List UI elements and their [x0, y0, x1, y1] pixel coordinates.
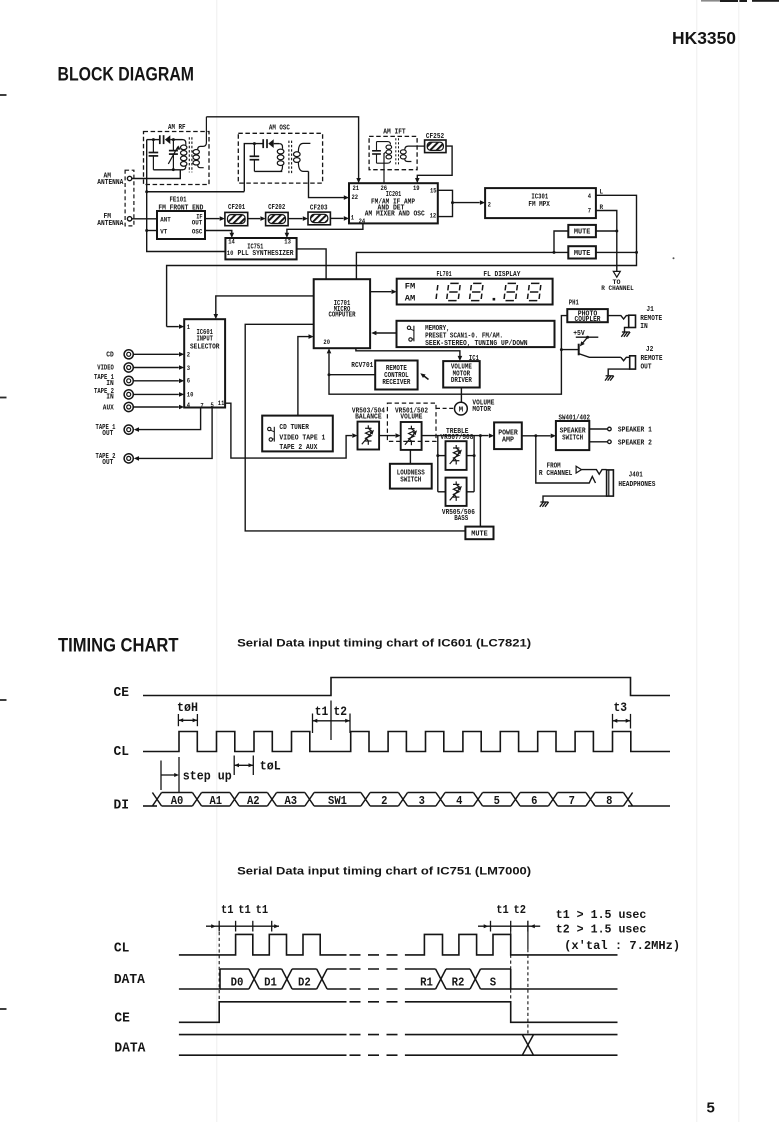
waveform DATA band chart2 right	[405, 968, 436, 970]
wire IC701 to bottom mute	[245, 324, 465, 531]
svg-text:11: 11	[218, 400, 225, 407]
svg-text:OUT: OUT	[102, 459, 113, 467]
svg-text:A3: A3	[284, 794, 297, 808]
jack TAPE 2 input	[124, 390, 133, 399]
svg-text:TIMING CHART: TIMING CHART	[58, 636, 179, 657]
svg-text:19: 19	[413, 185, 420, 192]
svg-text:AM OSC: AM OSC	[269, 125, 290, 133]
wire CF202 to CF203	[288, 218, 303, 220]
dashed link volume pot to motor	[436, 407, 454, 409]
svg-text:tøH: tøH	[177, 701, 198, 715]
transformer T3 secondary coil	[405, 146, 425, 150]
amplifier POWER AMP	[494, 422, 522, 449]
diode AM OSC	[268, 139, 273, 148]
jack VIDEO input	[124, 363, 133, 372]
svg-text:SWITCH: SWITCH	[400, 476, 421, 484]
transformer T1 primary coil	[183, 140, 186, 145]
ceramic filter CF252	[425, 140, 446, 153]
svg-text:R1: R1	[420, 976, 433, 990]
wire AUX to IC601	[133, 406, 178, 408]
wire IC201 pin24 to IC751 pin13	[287, 223, 363, 233]
IC IC601 input selector	[184, 319, 225, 407]
waveform DATA out chart2 lines	[179, 1034, 347, 1036]
svg-text:t1: t1	[221, 903, 234, 917]
svg-text:A2: A2	[247, 794, 260, 808]
svg-text:8: 8	[606, 794, 612, 808]
node to R channel open arrow	[613, 271, 620, 277]
wire AM IFT tap to IC201 pin 26	[384, 152, 386, 183]
svg-text:12: 12	[430, 213, 437, 220]
svg-text:CF202: CF202	[268, 204, 285, 212]
function box CD TUNER / VIDEO TAPE1 / TAPE2 AUX	[262, 416, 333, 452]
wire CD tuner select to IC701 pin20	[298, 337, 309, 416]
svg-text:MUTE: MUTE	[574, 229, 590, 237]
AM RF dashed enclosure	[144, 132, 210, 185]
svg-text:1: 1	[351, 215, 355, 222]
AM antenna terminal	[127, 176, 131, 180]
pot VR505/506 bass	[446, 478, 467, 506]
svg-text:HEADPHONES: HEADPHONES	[618, 481, 655, 489]
capacitor AM OSC coupling	[262, 139, 264, 148]
svg-text:AMP: AMP	[502, 436, 514, 444]
svg-text:t1: t1	[496, 903, 509, 917]
IC IC701 micro computer	[314, 279, 370, 348]
svg-text:REMOTE: REMOTE	[640, 315, 662, 323]
svg-text:D2: D2	[298, 976, 311, 990]
svg-text:D0: D0	[231, 976, 244, 990]
wire TAPE 2 to IC601	[133, 393, 178, 395]
ceramic filter CF201	[225, 212, 248, 225]
wire IC751 to IC701	[297, 249, 327, 279]
svg-text:SW1: SW1	[328, 794, 347, 808]
svg-text:MEMORY,: MEMORY,	[425, 325, 450, 333]
seven segment digits 188.88	[436, 285, 438, 299]
wire mute2 to IC701	[356, 252, 568, 279]
wire IC601 pin11 to balance pot	[225, 403, 352, 458]
svg-text:A0: A0	[171, 794, 184, 808]
svg-text:M: M	[459, 407, 464, 415]
svg-text:IN: IN	[106, 380, 113, 388]
svg-text:step up: step up	[183, 770, 232, 784]
ground for J1	[625, 328, 629, 332]
svg-text:AM IFT: AM IFT	[383, 128, 405, 136]
waveform CL chart2 right	[405, 934, 618, 955]
wire remote receiver to bus	[329, 374, 375, 376]
wire tone network rails	[437, 436, 439, 492]
svg-text:IC301: IC301	[531, 193, 548, 201]
wire to bottom mute	[479, 436, 481, 527]
svg-text:5: 5	[707, 1100, 715, 1117]
svg-text:OUT: OUT	[102, 430, 113, 438]
transformer T3 primary coil	[386, 145, 392, 149]
svg-text:J1: J1	[646, 306, 653, 314]
svg-text:24: 24	[359, 218, 366, 225]
IR beam arrow	[423, 375, 429, 379]
svg-text:AM RF: AM RF	[168, 124, 186, 132]
wire AM mixer feed	[147, 191, 245, 193]
scan speck	[673, 257, 675, 259]
svg-text:J401: J401	[629, 471, 643, 479]
wire FM antenna to FE101 ANT	[132, 218, 157, 220]
wire power amp to speaker switch	[522, 435, 551, 437]
svg-text:6: 6	[531, 794, 537, 808]
svg-text:MOTOR: MOTOR	[472, 406, 491, 414]
svg-text:AM: AM	[405, 295, 416, 304]
jack TAPE 1 OUT	[124, 425, 133, 434]
svg-text:IN: IN	[106, 394, 113, 402]
svg-text:Serial Data input timing chart: Serial Data input timing chart of IC751 …	[237, 866, 531, 878]
svg-text:A1: A1	[209, 794, 222, 808]
wire IC701 to IC601 top	[216, 296, 314, 314]
svg-text:t1: t1	[315, 705, 329, 719]
svg-text:ANT: ANT	[160, 216, 171, 223]
FM antenna terminal	[127, 217, 131, 221]
jack J2 remote out	[630, 356, 636, 369]
svg-text:CD TUNER: CD TUNER	[279, 424, 309, 432]
wire photo coupler output to J1	[608, 316, 629, 319]
wire AM RF to IC201 pin21 top bus	[206, 117, 358, 179]
transformer T3 core	[395, 138, 397, 166]
AM IFT dashed enclosure	[369, 136, 417, 169]
svg-text:TAPE 2 AUX: TAPE 2 AUX	[279, 444, 318, 452]
wire AM antenna to AM RF	[132, 170, 181, 179]
svg-text:FM MPX: FM MPX	[528, 201, 550, 209]
variable capacitor AM RF tuning	[172, 140, 174, 151]
svg-text:CD: CD	[106, 352, 113, 360]
svg-text:SWITCH: SWITCH	[562, 434, 583, 442]
wire AM IFT top	[377, 142, 391, 145]
wire IC601 pin7 to TAPE1 OUT	[139, 408, 201, 430]
wire IC701 to IC1 volume motor driver	[356, 348, 460, 356]
svg-text:3: 3	[419, 794, 425, 808]
transformer T2 secondary coil	[298, 143, 310, 151]
transformer T2 primary coil	[279, 144, 282, 149]
svg-text:COUPLER: COUPLER	[575, 316, 602, 324]
wire VT supply vertical	[147, 192, 226, 252]
IC IC301 FM MPX stereo decoder	[485, 188, 596, 218]
svg-text:OSC: OSC	[192, 229, 203, 236]
svg-text:4: 4	[187, 402, 191, 409]
wire AM OSC input riser	[244, 144, 262, 192]
svg-text:FM: FM	[405, 283, 416, 292]
wire AM RF top loop	[147, 139, 160, 141]
svg-text:7: 7	[569, 794, 575, 808]
jack TAPE 1 input	[124, 376, 133, 385]
jack TAPE 2 OUT	[124, 454, 133, 463]
waveform DATA band dashes	[350, 968, 405, 970]
svg-text:OUT: OUT	[192, 219, 203, 226]
node AM RF cap junction	[152, 138, 155, 141]
svg-text:VT: VT	[160, 229, 167, 236]
svg-text:t3: t3	[614, 701, 627, 715]
svg-text:22: 22	[352, 194, 359, 201]
svg-text:6: 6	[187, 378, 191, 385]
svg-text:CF203: CF203	[310, 205, 328, 213]
dimension t-phi-L	[233, 756, 235, 776]
svg-text:J2: J2	[646, 346, 653, 354]
svg-text:AUX: AUX	[103, 404, 115, 412]
svg-text:DI: DI	[114, 799, 130, 814]
wire AM OSC secondary output to IC201 pin22	[309, 171, 345, 197]
diode AM RF (varactor)	[165, 135, 170, 144]
svg-text:ANTENNA: ANTENNA	[97, 179, 124, 187]
svg-text:ANTENNA: ANTENNA	[97, 220, 124, 228]
wire CD to IC601	[133, 353, 178, 355]
wire IC601 pin5 to TAPE2 OUT	[139, 408, 212, 459]
wire L channel to headphone jack	[536, 436, 596, 483]
function box MEMORY / PRESET SCAN / SEEK-STEREO	[397, 321, 555, 347]
mute block 1 (R channel)	[568, 225, 596, 237]
wire memory functions into IC701	[376, 332, 397, 334]
transition X on DATA out	[522, 1035, 533, 1056]
waveform CL chart1	[143, 732, 670, 752]
guide dashed vertical data change	[527, 921, 529, 949]
svg-text:RCV701: RCV701	[351, 362, 373, 370]
ceramic filter CF202	[266, 212, 289, 225]
wire AM RF bottom loop	[153, 169, 183, 171]
svg-text:SPEAKER 1: SPEAKER 1	[618, 427, 652, 435]
wire IC201 pins 15/12 to IC301 pin2	[438, 190, 453, 216]
transformer T1 core	[188, 137, 190, 172]
tuner FE101 FM front end	[157, 211, 205, 239]
svg-text:t2 > 1.5 usec: t2 > 1.5 usec	[556, 923, 646, 937]
node AM OSC junction	[253, 142, 256, 145]
guide dashed vertical CE rise	[218, 926, 220, 1013]
jack J401 headphones	[607, 470, 614, 496]
wire driver to motor	[460, 388, 462, 403]
svg-text:SPEAKER 2: SPEAKER 2	[618, 440, 652, 448]
svg-text:REMOTE: REMOTE	[641, 355, 663, 363]
svg-text:VOLUME: VOLUME	[400, 414, 422, 422]
svg-text:BLOCK DIAGRAM: BLOCK DIAGRAM	[58, 65, 194, 86]
svg-text:15: 15	[430, 188, 437, 195]
svg-text:MUTE: MUTE	[471, 531, 487, 539]
svg-text:2: 2	[187, 351, 191, 358]
svg-text:VIDEO TAPE 1: VIDEO TAPE 1	[279, 434, 325, 442]
mute block 2 (L channel)	[568, 246, 596, 258]
svg-text:tøL: tøL	[260, 759, 281, 773]
capacitor C (AM RF tank)	[152, 140, 154, 153]
svg-text:2: 2	[381, 794, 387, 808]
svg-text:13: 13	[284, 238, 291, 245]
svg-text:21: 21	[353, 185, 360, 192]
svg-text:3: 3	[187, 365, 191, 372]
capacitor AM RF coupling	[159, 135, 161, 144]
waveform DI data band chart1	[143, 805, 157, 807]
transformer T1 secondary coil	[198, 117, 207, 150]
mute block bottom	[465, 527, 493, 540]
IC IC751 PLL frequency synthesizer	[225, 238, 296, 259]
svg-text:t1: t1	[256, 903, 269, 917]
svg-text:SEEK-STEREO, TUNING UP/DOWN: SEEK-STEREO, TUNING UP/DOWN	[425, 340, 528, 348]
svg-text:S: S	[490, 976, 496, 990]
wire FE101 IF OUT to CF201	[205, 218, 220, 220]
wire TAPE 1 to IC601	[133, 380, 178, 382]
svg-text:CL: CL	[114, 942, 130, 957]
svg-text:(x'tal : 7.2MHz): (x'tal : 7.2MHz)	[564, 939, 680, 953]
wire CF201 to CF202	[248, 218, 261, 220]
svg-text:DRIVER: DRIVER	[451, 377, 473, 385]
svg-text:CF252: CF252	[426, 133, 444, 141]
transistor Q1 remote out driver	[578, 344, 580, 356]
svg-text:PH1: PH1	[569, 300, 579, 308]
svg-text:20: 20	[323, 339, 330, 346]
wire to J2 with contact	[621, 357, 630, 360]
svg-text:FM FRONT END: FM FRONT END	[158, 204, 203, 212]
wire AM IFT bottom	[377, 161, 391, 163]
waveform DATA band chart2 left	[179, 969, 220, 989]
svg-text:Serial Data input timing chart: Serial Data input timing chart of IC601 …	[237, 637, 531, 649]
wire IC701 to FL display	[370, 291, 391, 293]
motor M volume motor	[455, 402, 468, 415]
svg-text:R2: R2	[452, 976, 465, 990]
wire VIDEO to IC601	[133, 367, 178, 369]
svg-text:10: 10	[227, 250, 234, 257]
svg-text:7: 7	[588, 207, 592, 214]
guide dashed vertical CE fall	[510, 932, 512, 1002]
svg-text:DATA: DATA	[114, 973, 146, 988]
svg-text:R CHANNEL: R CHANNEL	[539, 470, 573, 478]
svg-text:COMPUTER: COMPUTER	[329, 312, 357, 320]
svg-text:CE: CE	[114, 686, 130, 701]
svg-text:FE101: FE101	[170, 197, 187, 205]
wire AM RF left branch	[146, 140, 148, 192]
svg-text:L: L	[600, 188, 604, 195]
svg-text:t1: t1	[238, 903, 251, 917]
terminal SPEAKER 2	[589, 441, 608, 443]
wire FE101 OSC to IC751 pin14	[205, 231, 232, 234]
faint fold lines	[216, 0, 217, 1122]
wire volume to loudness switch	[409, 450, 411, 464]
svg-text:DATA: DATA	[114, 1042, 146, 1057]
function box LOUDNESS SWITCH	[390, 464, 432, 489]
waveform CL chart2 left	[179, 934, 347, 955]
svg-text:PLL SYNTHESIZER: PLL SYNTHESIZER	[238, 250, 295, 258]
capacitor AM OSC tank	[253, 144, 255, 156]
svg-text:OUT: OUT	[641, 363, 652, 371]
waveform CL chart2 dashes	[350, 954, 405, 956]
transformer T2 core	[288, 141, 290, 174]
svg-text:t2: t2	[334, 705, 347, 719]
svg-text:MUTE: MUTE	[574, 250, 590, 258]
wire VT to FE101	[147, 230, 157, 232]
wire AM OSC bottom	[254, 170, 282, 172]
svg-text:2: 2	[488, 202, 492, 209]
dashed enclosure volume motor-driven	[387, 403, 436, 441]
svg-text:INPUT: INPUT	[196, 336, 212, 344]
svg-text:5: 5	[494, 794, 500, 808]
jack CD input	[124, 350, 133, 359]
antenna dashed enclosure	[125, 170, 134, 226]
ground for headphone jack	[543, 496, 607, 501]
wire CF203 to IC201 pin1	[330, 217, 343, 219]
svg-text:1: 1	[187, 324, 191, 331]
svg-text:10: 10	[187, 391, 194, 398]
svg-text:CF201: CF201	[228, 204, 245, 212]
wire CF252 to IC201 pin 19	[417, 146, 452, 179]
svg-text:D1: D1	[264, 976, 277, 990]
wire remote/ph1 bus to IC701 bottom	[329, 316, 567, 395]
waveform CE chart1	[143, 678, 670, 696]
svg-text:t1 > 1.5 usec: t1 > 1.5 usec	[556, 908, 646, 922]
svg-text:RECEIVER: RECEIVER	[382, 379, 411, 387]
svg-text:CE: CE	[114, 1012, 130, 1027]
svg-text:AM MIXER AND OSC: AM MIXER AND OSC	[365, 211, 425, 219]
jack AUX input	[124, 402, 133, 411]
terminal SPEAKER 1	[589, 428, 608, 430]
svg-text:CL: CL	[114, 745, 130, 760]
IC IC201 FM/AM IF amp and det, AM mixer and osc	[349, 183, 438, 223]
svg-text:t2: t2	[514, 903, 527, 917]
waveform CE chart2	[179, 1002, 347, 1023]
ceramic filter CF203	[308, 212, 330, 225]
svg-text:BASS: BASS	[454, 515, 468, 523]
svg-text:HK3350: HK3350	[672, 28, 736, 48]
wire balance to volume	[379, 435, 395, 437]
svg-text:VIDEO: VIDEO	[97, 365, 113, 373]
jack J1 remote in	[629, 315, 636, 327]
svg-text:14: 14	[228, 238, 235, 245]
svg-text:SELECTOR: SELECTOR	[190, 343, 220, 351]
page scan artifacts top edge	[701, 0, 722, 2]
capacitor AM IFT	[376, 142, 378, 151]
left margin tick marks	[0, 94, 7, 96]
svg-text:IN: IN	[640, 323, 647, 331]
svg-text:4: 4	[588, 193, 592, 200]
svg-text:R CHANNEL: R CHANNEL	[601, 285, 634, 292]
ground for J2	[608, 369, 630, 375]
wire volume to power amp	[422, 435, 489, 437]
svg-text:4: 4	[456, 794, 462, 808]
svg-text:BALANCE: BALANCE	[355, 414, 382, 422]
dimension step up	[160, 761, 162, 791]
AM OSC dashed enclosure	[238, 133, 322, 183]
